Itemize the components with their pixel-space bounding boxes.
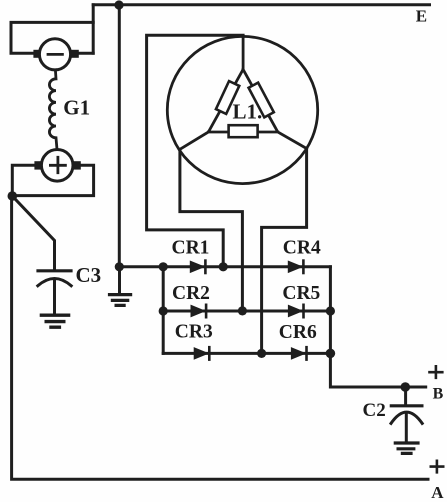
ground under C2 — [395, 443, 418, 453]
generator brush terminal right (minus) — [71, 50, 79, 58]
junction dot phase2/row2 — [238, 306, 247, 315]
capacitor C3 top plate — [38, 269, 71, 272]
svg-text:G1: G1 — [63, 96, 90, 120]
wire left column joining rows — [162, 267, 165, 354]
svg-text:C3: C3 — [76, 263, 102, 287]
diode CR2 — [191, 305, 205, 316]
generator brush terminal left (plus) — [34, 161, 42, 169]
svg-text:E: E — [416, 7, 427, 26]
generator brush terminal left (minus) — [33, 50, 41, 58]
wire left rail down to A line — [12, 196, 428, 479]
capacitor C2 top plate — [391, 404, 422, 407]
junction dot row1 left — [159, 262, 168, 271]
junction dot phase1/row1 — [219, 262, 228, 271]
wire B junction to C2 — [404, 387, 407, 405]
capacitor C3 curved plate — [38, 279, 71, 286]
stator circle L1 — [167, 36, 317, 183]
wire diode row 1 — [119, 265, 330, 268]
wire from rectifier to B line — [330, 353, 425, 387]
junction dot on B line — [401, 382, 411, 392]
plus sign — [50, 157, 65, 172]
svg-text:CR5: CR5 — [282, 283, 320, 304]
delta winding edges — [180, 37, 307, 150]
wire diode row 3 — [163, 352, 330, 355]
wire phase 2 from delta lower-left to CR2 row — [180, 149, 243, 311]
wire diode row 2 — [163, 310, 330, 313]
svg-text:CR3: CR3 — [175, 322, 213, 343]
svg-text:C2: C2 — [363, 400, 386, 421]
winding bottom rectangle — [229, 125, 258, 137]
svg-text:B: B — [433, 386, 444, 403]
diode CR1 — [190, 261, 204, 272]
wire phase 1 from delta top vertex to CR1 row — [147, 35, 244, 266]
junction dot under generator — [8, 191, 18, 201]
junction dot bus/row1 — [115, 262, 124, 271]
diode CR4 — [288, 261, 302, 272]
wire C2 to ground — [405, 413, 408, 442]
wire right column joining rows — [329, 267, 332, 354]
wire vertical from E line to minus terminal of G1 — [92, 5, 95, 53]
wire top E line — [93, 3, 429, 6]
wire phase 3 from delta lower-right to CR3 row — [262, 149, 307, 354]
winding right rectangle — [249, 83, 274, 118]
junction dot row2 left — [159, 306, 168, 315]
svg-text:CR6: CR6 — [279, 322, 317, 343]
junction dot row3 right — [326, 349, 336, 359]
diode CR5 — [288, 305, 302, 316]
wire C3 to ground — [53, 280, 56, 314]
ground under C3 — [41, 315, 68, 327]
generator brush terminal right (plus) — [73, 161, 81, 169]
plus sign at B — [430, 366, 443, 378]
junction dot on E line — [114, 0, 123, 9]
svg-text:CR4: CR4 — [283, 237, 321, 258]
junction dot row2 right — [326, 306, 335, 315]
svg-text:A: A — [431, 483, 444, 502]
wire diagonal from junction to C3 — [12, 196, 54, 269]
inductor coil G1 — [49, 70, 57, 149]
generator minus circle — [39, 39, 70, 70]
winding left rectangle — [216, 81, 239, 114]
diode CR6 — [291, 348, 305, 359]
minus sign — [48, 53, 62, 56]
svg-text:CR2: CR2 — [172, 283, 210, 304]
generator plus circle — [41, 150, 73, 182]
wire bracket under plus circle — [12, 165, 93, 195]
wire vertical bus from E line down to CR1 row — [118, 5, 121, 267]
plus sign at A — [431, 461, 443, 473]
junction dot phase3/row3 — [257, 349, 266, 358]
ground below bus junction — [118, 267, 121, 294]
svg-text:L1.: L1. — [233, 100, 263, 124]
diode CR3 — [194, 348, 208, 359]
wire bracket around minus circle — [11, 22, 93, 53]
capacitor C2 curved plate — [391, 412, 422, 423]
svg-text:CR1: CR1 — [172, 237, 210, 258]
